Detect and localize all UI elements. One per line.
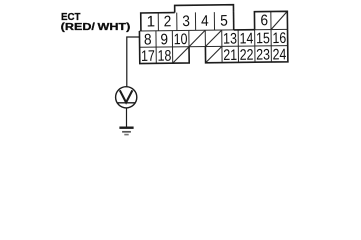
svg-text:8: 8 — [144, 31, 152, 48]
svg-text:16: 16 — [272, 30, 286, 47]
svg-text:21: 21 — [223, 47, 237, 64]
svg-text:18: 18 — [157, 48, 171, 65]
svg-text:1: 1 — [146, 13, 155, 30]
svg-text:3: 3 — [182, 13, 190, 30]
svg-text:4: 4 — [201, 13, 209, 30]
svg-text:9: 9 — [160, 31, 168, 48]
svg-text:24: 24 — [273, 46, 287, 63]
svg-text:22: 22 — [240, 47, 254, 64]
svg-text:17: 17 — [141, 48, 155, 65]
svg-text:5: 5 — [220, 13, 228, 30]
svg-text:2: 2 — [164, 13, 172, 30]
svg-text:10: 10 — [174, 31, 188, 48]
svg-text:14: 14 — [239, 30, 253, 47]
svg-text:13: 13 — [223, 31, 237, 48]
svg-text:15: 15 — [256, 30, 270, 47]
svg-text:6: 6 — [260, 12, 268, 29]
svg-text:(RED/ WHT): (RED/ WHT) — [61, 21, 131, 33]
svg-text:23: 23 — [256, 47, 270, 64]
